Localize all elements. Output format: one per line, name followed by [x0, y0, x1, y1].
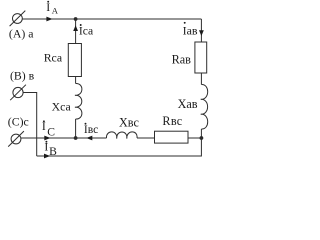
wire C line left	[21, 137, 107, 139]
svg-text:Rса: Rса	[44, 50, 63, 64]
arrow current Ica	[73, 25, 78, 31]
label Iab	[183, 22, 198, 38]
wire Xca to node c	[75, 119, 77, 138]
wire Rab to Xab	[200, 73, 202, 85]
svg-text:C: C	[47, 126, 55, 139]
label Ivs current Ibc	[84, 123, 98, 136]
node b junction	[200, 136, 204, 140]
arrow current IB	[44, 154, 50, 159]
svg-text:Хав: Хав	[178, 97, 198, 111]
arrow current Ibc	[86, 136, 92, 141]
resistor Rab	[195, 42, 207, 73]
svg-text:Iав: Iав	[183, 23, 198, 37]
svg-text:Rвс: Rвс	[162, 114, 182, 128]
node a junction	[74, 17, 78, 21]
wire B to corner	[23, 93, 37, 157]
terminal B	[10, 85, 26, 101]
svg-text:Iвс: Iвс	[84, 123, 98, 136]
svg-text:A: A	[52, 6, 59, 16]
wire node b down and B line bottom	[37, 138, 202, 156]
terminal A	[10, 11, 26, 27]
wire top A line	[22, 18, 201, 20]
wire Xab to node b	[200, 129, 202, 138]
wire right side down to Rab	[200, 19, 202, 42]
svg-text:B: B	[49, 145, 57, 158]
svg-text:Хса: Хса	[52, 99, 72, 113]
resistor Rbc	[155, 131, 189, 143]
arrow current IC	[44, 136, 50, 141]
arrow current Iab	[199, 30, 204, 36]
label Ica	[79, 24, 93, 37]
wire Rbc to node b	[188, 137, 201, 139]
svg-text:Хвс: Хвс	[119, 116, 139, 130]
label IA	[46, 0, 59, 16]
label IB	[44, 139, 57, 158]
svg-text:Iса: Iса	[79, 25, 93, 38]
wire Rca to Xca	[75, 77, 77, 84]
svg-text:(С)с: (С)с	[8, 114, 29, 128]
svg-text:Rав: Rав	[172, 52, 192, 66]
label IC	[42, 119, 55, 139]
inductor Xab	[201, 84, 208, 129]
resistor Rca	[68, 44, 81, 77]
terminal C	[8, 131, 24, 147]
inductor Xca	[75, 83, 82, 119]
svg-text:(А) а: (А) а	[9, 26, 34, 40]
wire Xbc to Rbc	[137, 137, 155, 139]
wire from node a down to Rca	[75, 19, 77, 44]
svg-text:(В) в: (В) в	[10, 69, 35, 83]
arrow current IA	[46, 17, 52, 22]
node c junction	[74, 136, 78, 140]
inductor Xbc	[106, 132, 137, 139]
